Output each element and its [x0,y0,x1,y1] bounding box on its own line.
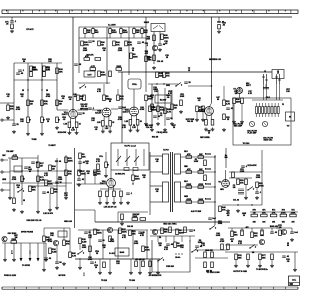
tube V1 [69,110,78,119]
wire pin [108,116,110,120]
connector CN1 pins [256,103,280,117]
svg-text:100K: 100K [134,243,139,245]
wire [3,119,14,121]
svg-text:REC LEVEL: REC LEVEL [200,137,209,139]
svg-text:.02: .02 [165,43,168,45]
svg-text:4.7K: 4.7K [167,111,172,114]
resistor R1 [84,29,87,34]
resistor R122 [109,236,112,242]
svg-text:47K: 47K [272,212,276,215]
wire [79,258,81,266]
svg-text:25: 25 [208,133,210,135]
resistor R80 [11,241,17,244]
resistor R83 [63,240,66,246]
resistor Rk3 [129,120,132,126]
wire bus [228,227,280,229]
wire [245,185,247,196]
capacitor C47 [78,162,82,163]
svg-text:.05: .05 [143,177,146,179]
ground [226,209,230,212]
resistor R84 [69,252,72,258]
wire [45,243,47,258]
svg-text:2: 2 [84,275,85,277]
resistor R30 [83,95,86,101]
wire [250,211,298,213]
resistor R82 [49,248,52,254]
svg-text:Screen: Screen [205,154,211,156]
svg-text:25: 25 [112,122,114,124]
svg-text:J2: J2 [264,71,266,73]
junction [37,170,38,171]
svg-text:25: 25 [79,124,81,126]
capacitor C25 twin [238,189,244,194]
svg-text:C14 .05: C14 .05 [146,126,152,129]
ground [236,209,240,212]
svg-text:330K: 330K [112,32,117,34]
resistor Rw1 [186,156,192,159]
svg-text:100K: 100K [256,177,261,179]
svg-text:BIAS ADJ: BIAS ADJ [270,225,278,228]
wire plate V3 [133,89,135,107]
svg-text:.02: .02 [63,119,66,121]
wire grid V1 [57,109,68,111]
transistor Q7 [259,239,264,244]
wire [173,236,175,242]
resistor R6 [141,29,144,34]
transformer T2 secondary lower [175,182,181,202]
capacitor C1 [18,70,22,71]
capacitor C34 [270,232,274,233]
svg-text:Screen: Screen [205,199,211,201]
wire [99,197,101,201]
capacitor C72 [217,21,221,22]
wire [109,33,111,38]
svg-text:47K: 47K [68,173,72,176]
svg-text:4.7K: 4.7K [13,154,18,157]
meter box M1 [286,112,295,121]
svg-text:TO CN-5: TO CN-5 [243,143,250,145]
wire [259,260,261,264]
ground [55,126,59,129]
wire [84,27,86,29]
resistor R5 [133,29,136,34]
wire [84,172,86,184]
wire [141,27,143,29]
svg-text:470K: 470K [259,185,264,188]
svg-text:10K: 10K [87,32,91,34]
rotary dots [175,253,182,254]
resistor R37 [156,72,159,78]
wire [130,259,132,271]
svg-text:470K: 470K [48,240,53,243]
ground [158,48,162,51]
wire [128,27,130,75]
svg-text:.05: .05 [62,98,65,100]
wire bus [78,229,148,231]
svg-text:100K: 100K [146,39,151,41]
resistor R2 [92,29,95,34]
svg-text:220K: 220K [11,239,16,241]
ground [67,131,71,134]
ground [64,196,68,199]
svg-text:1M: 1M [253,213,256,215]
svg-text:100K: 100K [180,96,185,98]
ground [6,116,10,119]
wire [56,63,58,110]
svg-text:340: 340 [225,156,228,159]
wire [214,155,216,225]
svg-text:100K: 100K [198,199,203,201]
svg-text:470K: 470K [140,108,145,111]
svg-text:220K: 220K [132,216,137,218]
svg-text:220K: 220K [133,57,138,59]
wire [102,126,104,129]
svg-text:330K: 330K [48,184,53,186]
ground [98,201,102,204]
svg-text:2: 2 [30,253,31,255]
wire [146,230,148,259]
wire [3,159,8,161]
resistor R90 [135,261,138,267]
transformer T2 primary upper [163,154,169,174]
svg-text:PB EQ 50-15: PB EQ 50-15 [157,132,168,134]
wire [11,17,13,21]
capacitor C12 [118,107,122,108]
ground [78,266,82,269]
wire [43,242,45,268]
resistor R124 [221,244,224,250]
terminal [1,189,3,191]
resistor R94 [161,228,164,234]
wire [225,244,258,246]
svg-text:12AX7: 12AX7 [100,182,107,185]
svg-text:R72: R72 [272,210,275,212]
ground [129,271,133,274]
resistor R8 [41,100,44,106]
arrow connector [37,258,40,262]
wire pin [103,116,105,120]
svg-text:47K: 47K [166,75,170,78]
svg-text:C48 .02: C48 .02 [127,225,133,228]
svg-text:56K: 56K [234,235,238,237]
ground [36,210,40,213]
svg-text:220K: 220K [116,66,121,68]
svg-text:330K: 330K [123,32,128,34]
wire bus [2,242,46,244]
svg-text:R73 4.7K: R73 4.7K [26,28,34,31]
resistor R85 [94,229,97,235]
ground [156,271,160,274]
resistor R1 [30,66,33,72]
resistor R6b [43,71,46,77]
svg-text:56K: 56K [164,232,168,234]
svg-text:.05: .05 [86,163,89,165]
wire [294,252,296,268]
wire [157,259,159,271]
wire [37,243,39,258]
svg-text:4.7K: 4.7K [226,103,231,106]
resistor R24 [153,35,156,41]
wire [181,186,216,188]
resistor Ra1 [75,122,78,128]
wire [76,183,106,185]
capacitor C38 [77,179,81,180]
svg-text:470K: 470K [12,178,17,181]
svg-text:50: 50 [217,99,219,101]
connector enclosure [233,98,291,145]
wire [120,197,122,201]
junction [41,89,42,90]
capacitor C11 [88,108,92,109]
resistor R67 [121,214,124,220]
resistor Rk2 [102,121,105,127]
svg-text:.02: .02 [160,115,163,117]
wire [195,257,228,259]
capacitor C7 [137,42,141,43]
terminal strip top [2,10,298,13]
switch S8 [157,258,164,262]
switch S7 [77,251,84,255]
wire [132,230,134,259]
wire winding lead [150,201,163,203]
wire [94,210,96,222]
svg-text:100K: 100K [83,50,88,52]
resistor R56 [45,180,48,186]
svg-text:4.7K: 4.7K [248,92,253,95]
resistor Rk1 [68,122,71,128]
ground [10,29,14,32]
ground [150,128,154,131]
ground [270,264,274,267]
junction [211,85,212,86]
junction [237,204,238,205]
capacitor C39 [208,218,212,219]
svg-text:EQ SW: EQ SW [160,99,167,101]
resistor R29 [77,95,80,101]
capacitor C26 [255,192,259,193]
wire [117,89,119,95]
svg-text:4.7K: 4.7K [128,44,133,47]
wire [92,109,102,111]
wire [102,230,104,259]
resistor R21 [116,68,122,71]
resistor R92 [149,261,152,267]
fold ruler bottom [2,287,298,289]
wire [132,181,134,184]
wire [118,211,148,213]
wire [79,163,81,169]
svg-text:12AX7: 12AX7 [123,111,130,114]
ground [104,174,108,177]
resistor R52 [37,176,40,182]
resistor R68 [219,206,222,212]
resistor R105 [251,232,254,238]
wire [44,227,70,229]
ground [290,238,294,241]
ground [163,128,167,131]
svg-text:470K: 470K [118,118,123,121]
capacitor C40 [241,166,245,167]
svg-text:47K: 47K [120,98,124,101]
svg-text:50-60~: 50-60~ [175,257,180,259]
svg-text:J3: J3 [277,71,279,73]
wire [229,171,262,173]
wire [7,103,9,105]
svg-text:4.7K: 4.7K [238,242,243,245]
wire [148,83,178,85]
svg-text:220K: 220K [186,184,191,186]
resistor R46 [223,114,226,120]
ground [234,264,238,267]
resistor R16 [113,41,116,46]
capacitor C29 [84,232,88,233]
wire [151,84,153,128]
resistor R102 [211,262,214,268]
resistor Rw2 [186,171,192,174]
resistor R15 [98,41,101,46]
svg-text:.05: .05 [95,129,98,131]
wire [56,158,58,206]
svg-text:Vol FC Lead: Vol FC Lead [124,146,136,148]
resistor Rg107 [106,191,109,197]
wire [235,260,237,264]
resistor Rw3 [186,186,192,189]
junction [163,83,164,84]
wire bus [10,170,66,172]
resistor R95 [169,227,172,233]
ground [62,262,66,265]
bias box [155,95,171,103]
wire [92,27,94,29]
wire [65,155,67,190]
output box [84,71,95,77]
resistor R70 [245,179,248,185]
transistor Q5 [152,229,157,234]
svg-text:10K: 10K [82,157,86,159]
svg-text:330K: 330K [97,233,102,235]
svg-text:1M: 1M [52,169,55,171]
svg-text:25: 25 [166,57,168,59]
ground [156,122,160,125]
svg-text:4.7K: 4.7K [91,65,96,68]
wire [157,236,159,242]
resistor R50 [12,157,18,160]
svg-text:R119 470K: R119 470K [248,164,258,167]
svg-text:2.2M: 2.2M [40,180,45,182]
ground [42,268,46,271]
svg-text:C37 .05: C37 .05 [55,161,61,163]
switch contacts [124,168,138,171]
wire bus 2 [75,258,160,260]
title block mark [290,283,293,285]
wire [195,249,228,251]
wire winding lead [150,185,163,187]
terminal [1,159,3,161]
resistor Rg100 [99,191,102,197]
capacitor C30 [138,232,142,233]
terminal [1,119,3,121]
svg-text:1M: 1M [101,45,104,47]
svg-text:4.7K: 4.7K [122,126,127,129]
resistor R66 [140,218,146,221]
resistor R100 [211,252,214,258]
svg-text:1M: 1M [159,245,162,247]
svg-text:10K: 10K [54,192,58,194]
ground [98,271,102,274]
wire [110,171,112,179]
relay box K1 [58,231,67,237]
svg-text:2.2M: 2.2M [52,252,57,254]
resistor R7 [27,100,30,106]
svg-text:10K: 10K [136,32,140,34]
ground [44,258,48,261]
wire [153,32,155,65]
resistor R89 [142,246,145,252]
svg-text:.02: .02 [222,25,225,27]
ground [108,271,112,274]
resistor R57 [51,188,54,194]
svg-text:47K: 47K [262,212,266,215]
resistor R22 [130,53,133,59]
svg-text:25: 25 [140,121,142,123]
resistor R28 [109,71,112,77]
resistor Rr2 [261,214,267,217]
wire [149,259,151,271]
svg-text:56K: 56K [144,32,148,34]
wire [256,188,258,192]
resistor R101 [204,262,207,268]
wire [9,158,11,196]
ground [170,122,174,125]
wire [279,84,281,100]
resistor R130 [79,153,82,159]
svg-text:.05: .05 [103,50,106,52]
resistor R23 [145,56,148,62]
resistor Ra3 [136,120,139,126]
wire [13,103,15,124]
wire [65,190,67,196]
wire [92,33,94,38]
potentiometer VR3 volume [105,162,109,168]
svg-text:12AX7: 12AX7 [62,113,69,116]
resistor R118 [232,172,235,178]
svg-text:470K: 470K [281,212,286,215]
potentiometer VR5 [27,117,31,123]
wire [159,32,161,45]
svg-text:10K: 10K [199,169,203,171]
resistor R35 [149,106,152,112]
ground [75,131,79,134]
svg-text:.1: .1 [147,45,149,47]
resistor R121 [227,244,230,250]
wire [41,63,43,117]
resistor R116 [204,160,207,166]
resistor R45 [223,100,226,106]
svg-text:R71: R71 [262,210,265,212]
wire [13,243,15,258]
svg-text:4.7K: 4.7K [72,255,77,258]
svg-text:R19 47K: R19 47K [86,54,94,57]
resistor R4 [120,29,123,34]
svg-text:220K: 220K [58,179,63,181]
wire switch pole [126,149,128,166]
svg-text:.05: .05 [6,24,9,26]
wire [252,99,283,101]
wire [133,27,135,29]
resistor R19 [95,58,101,61]
svg-text:330K: 330K [68,161,73,163]
wire [89,230,91,259]
